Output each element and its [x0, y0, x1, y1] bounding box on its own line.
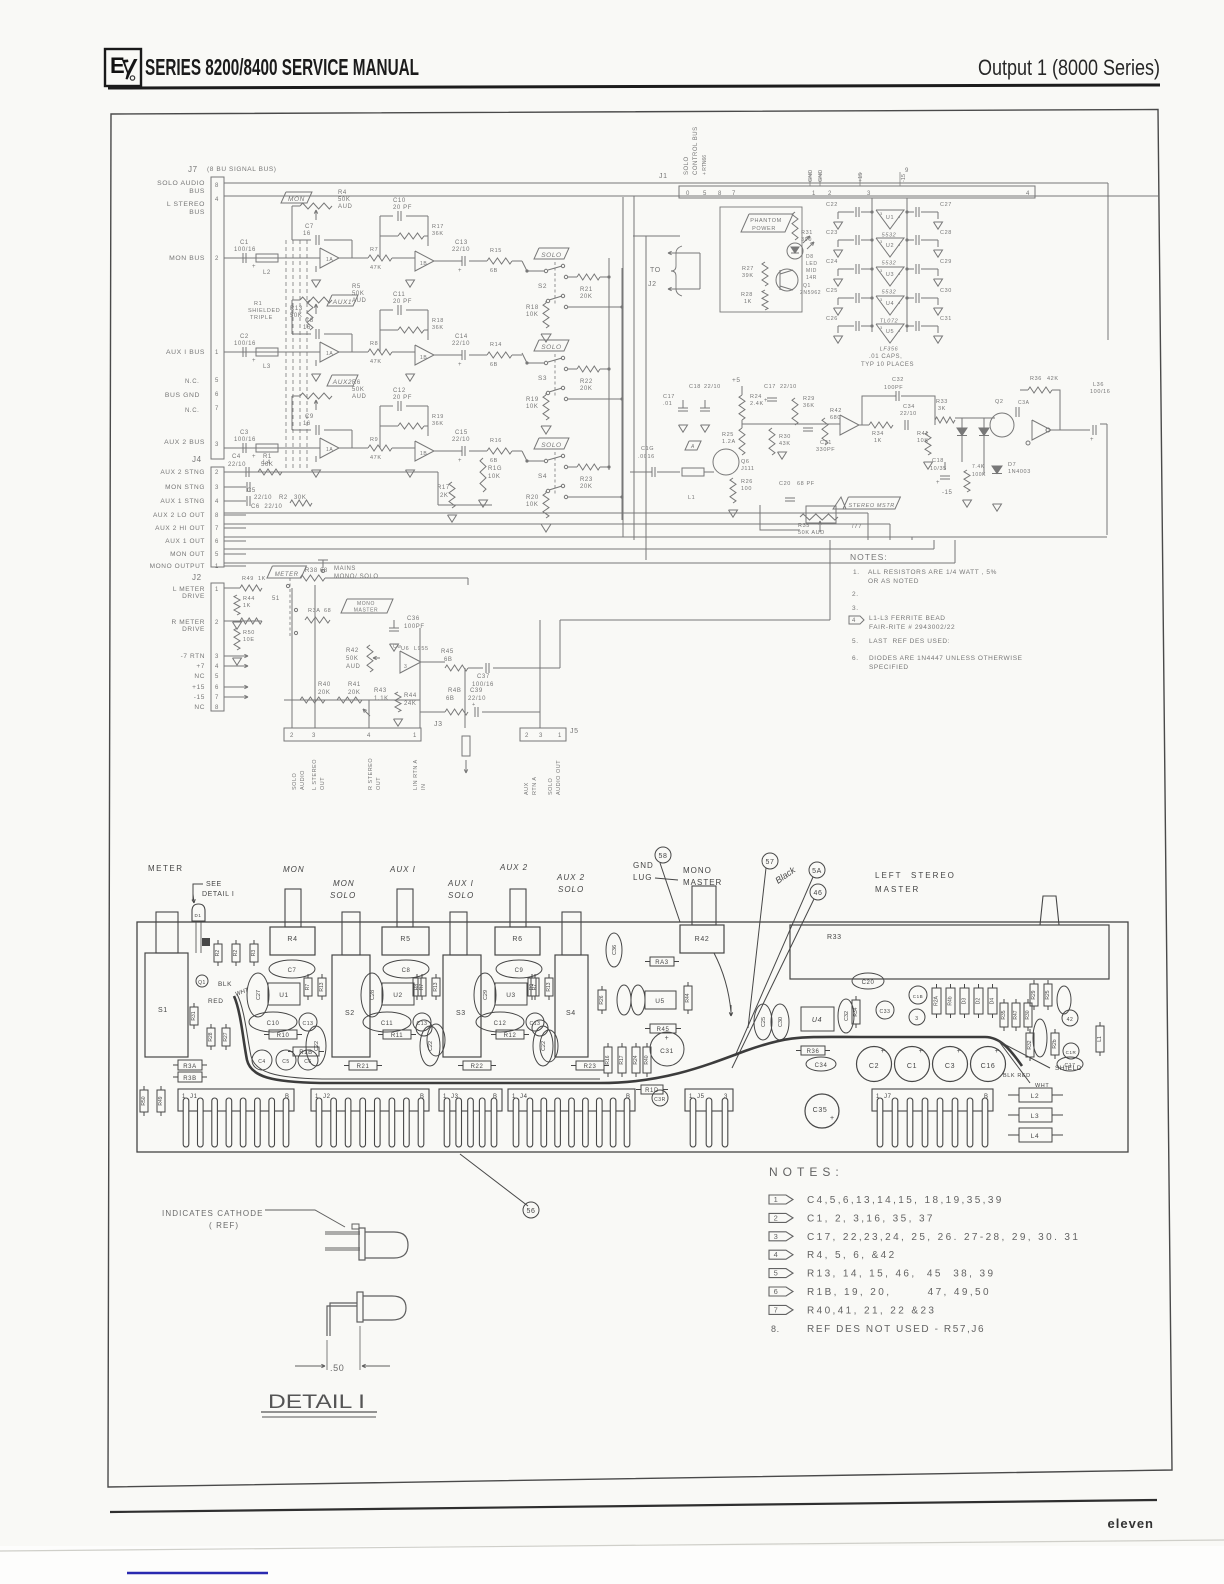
svg-text:+: +: [458, 458, 462, 464]
svg-text:R40: R40: [318, 682, 331, 688]
svg-text:AUD: AUD: [352, 394, 367, 400]
svg-text:MAINS: MAINS: [334, 566, 356, 572]
svg-text:3: 3: [880, 325, 883, 330]
svg-text:C3: C3: [240, 430, 249, 436]
svg-text:C1: C1: [240, 240, 249, 246]
svg-text:1K: 1K: [874, 438, 882, 444]
svg-text:R49: R49: [158, 1096, 164, 1105]
svg-text:J3: J3: [434, 721, 443, 728]
svg-text:D4: D4: [990, 998, 996, 1005]
svg-text:R1B, 19, 20, 47, 49,50: R1B, 19, 20, 47, 49,50: [807, 1287, 991, 1298]
svg-text:4: 4: [898, 271, 901, 276]
svg-text:1.: 1.: [853, 569, 860, 576]
svg-text:A: A: [690, 444, 695, 450]
svg-text:TYP 10 PLACES: TYP 10 PLACES: [861, 362, 914, 368]
svg-text:4: 4: [898, 328, 901, 333]
svg-text:36K: 36K: [432, 421, 444, 427]
svg-text:S3: S3: [456, 1010, 466, 1017]
svg-text:R50: R50: [243, 630, 255, 636]
svg-text:C2: C2: [240, 334, 249, 340]
svg-text:10K: 10K: [526, 502, 538, 508]
svg-text:+: +: [458, 362, 462, 368]
svg-text:R33: R33: [827, 934, 842, 941]
svg-text:U5: U5: [886, 329, 894, 335]
svg-text:.01 CAPS,: .01 CAPS,: [869, 354, 902, 360]
svg-text:INDICATES CATHODE: INDICATES CATHODE: [162, 1209, 264, 1218]
svg-text:R27: R27: [223, 1032, 229, 1041]
svg-text:0: 0: [686, 191, 690, 197]
svg-text:R2: R2: [233, 950, 239, 957]
svg-text:C12: C12: [393, 388, 406, 394]
svg-text:J5: J5: [570, 728, 579, 735]
svg-text:6B: 6B: [490, 458, 498, 464]
svg-text:R44: R44: [243, 596, 255, 602]
svg-text:MONO OUTPUT: MONO OUTPUT: [150, 563, 205, 570]
svg-text:6: 6: [774, 1287, 779, 1296]
svg-text:AUX 2: AUX 2: [499, 863, 528, 872]
svg-text:GND: GND: [818, 170, 824, 182]
svg-text:4: 4: [367, 733, 371, 739]
svg-text:R29: R29: [803, 396, 815, 402]
svg-text:+: +: [919, 1048, 924, 1055]
svg-text:R19: R19: [432, 414, 444, 420]
svg-text:6B: 6B: [490, 362, 498, 368]
svg-text:C11: C11: [381, 1021, 393, 1027]
svg-text:C35: C35: [813, 1107, 828, 1114]
svg-text:GND: GND: [808, 170, 814, 182]
svg-text:C36: C36: [407, 616, 420, 622]
svg-text:C20: C20: [862, 980, 875, 986]
svg-text:C6 22/10: C6 22/10: [251, 504, 282, 510]
svg-text:R20: R20: [526, 495, 539, 501]
svg-text:R13: R13: [433, 982, 439, 991]
svg-text:8: 8: [718, 191, 722, 197]
svg-text:+: +: [881, 1048, 886, 1055]
svg-text:(8 BU SIGNAL BUS): (8 BU SIGNAL BUS): [207, 166, 277, 173]
svg-text:22/10: 22/10: [452, 341, 470, 347]
svg-text:C1, 2, 3,16, 35, 37: C1, 2, 3,16, 35, 37: [807, 1213, 935, 1224]
svg-text:OR AS NOTED: OR AS NOTED: [868, 578, 919, 585]
svg-text:DETAIL I: DETAIL I: [202, 891, 234, 898]
svg-text:22/10: 22/10: [704, 384, 721, 390]
svg-text:MONO: MONO: [357, 601, 375, 607]
svg-text:C21: C21: [820, 440, 832, 446]
svg-text:R5: R5: [352, 284, 361, 290]
svg-text:R METER: R METER: [172, 619, 205, 626]
svg-text:100/16: 100/16: [234, 437, 256, 443]
svg-text:8: 8: [215, 513, 219, 519]
svg-text:3: 3: [215, 654, 219, 660]
svg-text:C1R: C1R: [1066, 1050, 1077, 1055]
svg-text:R13: R13: [546, 982, 552, 991]
svg-text:C22: C22: [541, 1041, 547, 1051]
svg-text:2: 2: [828, 191, 832, 197]
svg-text:1.2A: 1.2A: [722, 439, 736, 445]
svg-text:MON BUS: MON BUS: [169, 255, 205, 262]
svg-text:GND: GND: [633, 861, 654, 870]
svg-text:R25: R25: [1045, 990, 1051, 999]
svg-text:R26: R26: [741, 479, 753, 485]
svg-text:10K: 10K: [488, 474, 500, 480]
svg-text:R40: R40: [644, 1055, 650, 1064]
svg-text:C29: C29: [940, 259, 952, 265]
svg-text:50K: 50K: [352, 291, 364, 297]
svg-text:R4, 5, 6, &42: R4, 5, 6, &42: [807, 1250, 897, 1261]
svg-text:NOTES:: NOTES:: [850, 552, 888, 562]
svg-text:+ RTN66: + RTN66: [702, 155, 708, 175]
svg-text:+: +: [458, 268, 462, 274]
svg-text:1A: 1A: [326, 351, 333, 357]
svg-text:5532: 5532: [882, 290, 897, 296]
svg-text:.01: .01: [663, 401, 672, 407]
svg-text:C27: C27: [940, 202, 952, 208]
svg-text:C25: C25: [826, 288, 838, 294]
svg-text:NC: NC: [194, 673, 205, 680]
svg-text:C3R: C3R: [654, 1097, 666, 1103]
svg-text:SOLO: SOLO: [541, 442, 561, 449]
svg-text:+: +: [252, 264, 256, 270]
svg-text:R24: R24: [633, 1055, 639, 1064]
svg-text:AUX2: AUX2: [332, 379, 352, 386]
svg-text:36K: 36K: [432, 325, 444, 331]
svg-text:U4: U4: [886, 301, 894, 307]
svg-text:3: 3: [915, 1016, 918, 1022]
svg-text:R30: R30: [1025, 1010, 1031, 1019]
svg-text:L1: L1: [688, 495, 695, 501]
svg-text:S1: S1: [158, 1007, 168, 1014]
svg-text:+: +: [995, 1048, 1000, 1055]
svg-text:1: 1: [413, 733, 417, 739]
svg-text:C31: C31: [940, 316, 952, 322]
svg-text:-15: -15: [901, 174, 907, 182]
svg-text:42: 42: [1067, 1017, 1074, 1023]
svg-text:68: 68: [324, 608, 331, 614]
svg-text:6B: 6B: [446, 696, 455, 702]
svg-text:R47: R47: [1013, 1010, 1019, 1019]
svg-text:Q1: Q1: [198, 980, 206, 986]
svg-text:7: 7: [215, 695, 219, 701]
svg-text:1K: 1K: [744, 299, 752, 305]
svg-text:5: 5: [215, 552, 219, 558]
svg-text:SHIELDED: SHIELDED: [248, 308, 280, 314]
svg-text:R30: R30: [779, 434, 791, 440]
svg-text:R13: R13: [290, 306, 303, 312]
svg-text:J7: J7: [188, 165, 198, 174]
svg-text:S4: S4: [538, 473, 547, 480]
svg-text:J1: J1: [659, 173, 668, 180]
svg-text:J2: J2: [323, 1094, 331, 1100]
svg-text:+: +: [764, 398, 768, 404]
svg-text:5.: 5.: [852, 638, 859, 645]
svg-text:3: 3: [215, 442, 219, 448]
svg-text:LEFT STEREO: LEFT STEREO: [875, 871, 956, 880]
svg-text:C18: C18: [932, 458, 944, 464]
svg-text:C9: C9: [515, 968, 524, 974]
svg-text:AUD: AUD: [352, 298, 367, 304]
svg-text:-7 RTN: -7 RTN: [181, 653, 205, 660]
svg-text:3: 3: [880, 297, 883, 302]
svg-text:8.: 8.: [771, 1324, 780, 1334]
svg-text:14R: 14R: [806, 275, 817, 281]
svg-text:10E: 10E: [243, 637, 255, 643]
svg-text:2: 2: [525, 733, 529, 739]
svg-text:R41: R41: [917, 431, 929, 437]
svg-text:R22: R22: [471, 1064, 484, 1070]
svg-text:7: 7: [215, 526, 219, 532]
svg-text:+: +: [252, 454, 256, 460]
svg-text:S4: S4: [566, 1010, 576, 1017]
svg-text:DETAIL I: DETAIL I: [268, 1392, 365, 1413]
svg-text:C3: C3: [945, 1063, 955, 1070]
svg-text:C36: C36: [612, 945, 618, 955]
svg-text:36K: 36K: [432, 231, 444, 237]
svg-text:22/10: 22/10: [468, 696, 486, 702]
svg-text:5: 5: [215, 674, 219, 680]
svg-text:4: 4: [215, 499, 219, 505]
svg-text:C32: C32: [844, 1011, 850, 1021]
svg-text:R STEREO: R STEREO: [368, 758, 374, 790]
svg-text:BUS GND: BUS GND: [165, 392, 200, 399]
svg-text:C20: C20: [779, 481, 791, 487]
svg-text:D2: D2: [976, 998, 982, 1005]
svg-text:1.1K: 1.1K: [374, 696, 389, 702]
svg-text:R31: R31: [801, 230, 813, 236]
svg-text:R7: R7: [370, 247, 378, 253]
svg-text:BUS: BUS: [189, 188, 205, 195]
svg-text:R14: R14: [490, 342, 502, 348]
svg-text:C7: C7: [305, 224, 314, 230]
svg-text:2: 2: [774, 1213, 779, 1222]
svg-text:100/16: 100/16: [234, 247, 256, 253]
svg-text:MASTER: MASTER: [354, 608, 378, 614]
svg-text:R3: R3: [251, 950, 257, 957]
svg-text:100K: 100K: [972, 472, 986, 478]
svg-text:R23: R23: [580, 477, 593, 483]
svg-text:MONO: MONO: [683, 866, 712, 875]
svg-text:L3: L3: [263, 364, 271, 370]
svg-text:R50: R50: [141, 1096, 147, 1105]
svg-text:+: +: [1090, 437, 1094, 443]
svg-text:LIN RTN A: LIN RTN A: [413, 759, 419, 790]
svg-text:10K: 10K: [526, 404, 538, 410]
svg-text:58: 58: [659, 853, 668, 860]
svg-text:3K: 3K: [938, 406, 946, 412]
svg-text:4: 4: [774, 1250, 779, 1259]
svg-text:R9: R9: [370, 437, 378, 443]
svg-text:C11: C11: [393, 292, 405, 298]
svg-text:R5: R5: [400, 936, 410, 943]
svg-text:C23: C23: [826, 230, 838, 236]
svg-text:R36: R36: [1030, 376, 1042, 382]
svg-text:47K: 47K: [370, 359, 382, 365]
svg-text:S2: S2: [538, 283, 547, 290]
svg-text:Output 1 (8000 Series): Output 1 (8000 Series): [978, 55, 1160, 80]
svg-text:16: 16: [303, 325, 311, 331]
svg-text:R2: R2: [279, 495, 288, 501]
svg-text:6: 6: [215, 539, 219, 545]
svg-text:R21: R21: [357, 1064, 370, 1070]
svg-text:R3A: R3A: [183, 1064, 196, 1070]
svg-text:R1: R1: [263, 454, 272, 460]
svg-text:3: 3: [774, 1232, 779, 1241]
svg-text:C14: C14: [455, 334, 468, 340]
svg-text:1A: 1A: [326, 257, 333, 263]
svg-text:3: 3: [312, 733, 316, 739]
svg-text:L1-L3 FERRITE BEAD: L1-L3 FERRITE BEAD: [869, 615, 946, 622]
svg-text:50K AUD: 50K AUD: [798, 530, 825, 536]
svg-text:C28: C28: [940, 230, 952, 236]
svg-text:U1: U1: [886, 215, 894, 221]
svg-text:METER: METER: [275, 572, 299, 578]
svg-text:R35: R35: [1001, 1010, 1007, 1019]
svg-text:R13, 14, 15, 46, 45 38, 39: R13, 14, 15, 46, 45 38, 39: [807, 1269, 995, 1280]
svg-text:NOTES:: NOTES:: [769, 1165, 844, 1179]
svg-text:R42: R42: [695, 936, 710, 943]
svg-text:AUX I: AUX I: [447, 879, 474, 888]
svg-text:R43: R43: [374, 688, 387, 694]
svg-text:39K: 39K: [742, 273, 754, 279]
svg-text:6.: 6.: [852, 655, 859, 662]
svg-text:+15: +15: [858, 173, 864, 182]
svg-text:5: 5: [774, 1269, 779, 1278]
svg-text:/77: /77: [852, 524, 862, 530]
svg-text:R24: R24: [750, 394, 762, 400]
svg-text:E: E: [110, 53, 125, 78]
svg-text:+: +: [665, 1035, 670, 1042]
svg-text:MON: MON: [288, 196, 305, 203]
svg-text:C28: C28: [370, 990, 376, 1000]
svg-text:R3A: R3A: [308, 608, 321, 614]
svg-text:R17: R17: [619, 1055, 625, 1064]
svg-text:L3: L3: [1031, 1113, 1039, 1120]
svg-text:R10: R10: [277, 1033, 290, 1039]
svg-text:SPECIFIED: SPECIFIED: [869, 664, 909, 671]
svg-text:LF356: LF356: [880, 347, 899, 353]
svg-text:AUX 1 STNG: AUX 1 STNG: [160, 498, 205, 505]
svg-text:7.4K: 7.4K: [972, 464, 985, 470]
svg-text:U1: U1: [279, 992, 289, 999]
svg-text:C31: C31: [660, 1048, 674, 1055]
svg-text:10/35: 10/35: [930, 466, 947, 472]
svg-text:RED: RED: [208, 998, 224, 1005]
svg-text:R44: R44: [404, 693, 417, 699]
svg-text:Q2: Q2: [995, 399, 1004, 405]
svg-text:J1: J1: [190, 1094, 198, 1100]
svg-text:+: +: [936, 480, 940, 486]
svg-text:C27: C27: [256, 990, 262, 1000]
svg-text:C2: C2: [869, 1063, 879, 1070]
svg-text:+: +: [830, 1115, 835, 1122]
svg-text:CONTROL BUS: CONTROL BUS: [693, 126, 699, 175]
svg-text:4: 4: [898, 214, 901, 219]
svg-text:C5: C5: [282, 1059, 290, 1065]
svg-text:+: +: [957, 1048, 962, 1055]
svg-text:R17: R17: [432, 224, 444, 230]
svg-text:WHT: WHT: [1035, 1083, 1049, 1089]
svg-text:AUDIO: AUDIO: [300, 770, 306, 790]
svg-text:SOLO: SOLO: [330, 891, 356, 900]
svg-text:IN: IN: [421, 784, 427, 791]
svg-text:47K: 47K: [370, 265, 382, 271]
svg-text:RA3: RA3: [655, 960, 669, 966]
svg-text:AUX 2 LO OUT: AUX 2 LO OUT: [153, 512, 205, 519]
svg-text:100/16: 100/16: [234, 341, 256, 347]
svg-text:20K: 20K: [580, 484, 592, 490]
svg-text:NC: NC: [194, 704, 205, 711]
svg-text:50K: 50K: [290, 313, 302, 319]
svg-text:-15: -15: [942, 490, 953, 496]
svg-text:1K: 1K: [243, 603, 251, 609]
svg-text:C30: C30: [778, 1017, 784, 1027]
svg-text:R12: R12: [504, 1033, 517, 1039]
svg-text:R18: R18: [432, 318, 444, 324]
svg-text:6: 6: [215, 392, 219, 398]
svg-text:C16: C16: [981, 1063, 996, 1070]
svg-text:N.C.: N.C.: [185, 408, 199, 414]
svg-text:L4: L4: [1031, 1133, 1039, 1140]
svg-text:100: 100: [741, 486, 752, 492]
svg-text:U2: U2: [886, 243, 894, 249]
svg-text:20K: 20K: [318, 690, 330, 696]
svg-text:5A: 5A: [812, 868, 822, 875]
svg-text:9: 9: [905, 168, 909, 174]
svg-text:100/16: 100/16: [1090, 389, 1110, 395]
svg-text:U5: U5: [655, 998, 665, 1005]
svg-text:SOLO: SOLO: [541, 252, 561, 259]
svg-text:3: 3: [539, 733, 543, 739]
svg-text:C1G: C1G: [641, 446, 654, 452]
svg-text:50K: 50K: [338, 197, 350, 203]
svg-text:R28: R28: [208, 1032, 214, 1041]
svg-text:4: 4: [215, 664, 219, 670]
svg-text:R42: R42: [346, 648, 359, 654]
svg-text:1: 1: [558, 733, 562, 739]
svg-text:2.: 2.: [852, 591, 859, 598]
svg-text:WHT: WHT: [235, 987, 251, 998]
svg-text:R3B: R3B: [183, 1076, 196, 1082]
svg-text:R9: R9: [529, 984, 535, 991]
svg-text:42K: 42K: [1047, 376, 1059, 382]
svg-text:R34: R34: [872, 431, 884, 437]
svg-text:AUX 2: AUX 2: [556, 873, 585, 882]
svg-text:R1: R1: [254, 301, 262, 307]
svg-text:S3: S3: [538, 375, 547, 382]
svg-text:( REF): ( REF): [209, 1221, 239, 1230]
svg-text:R23: R23: [584, 1064, 597, 1070]
svg-text:AUX 2 BUS: AUX 2 BUS: [164, 439, 205, 446]
svg-text:U2: U2: [393, 992, 403, 999]
svg-text:C26: C26: [826, 316, 838, 322]
svg-text:+5: +5: [732, 377, 741, 384]
svg-text:U3: U3: [506, 992, 516, 999]
svg-text:R32: R32: [1027, 1040, 1033, 1049]
svg-text:3.: 3.: [852, 605, 859, 612]
svg-text:R15: R15: [490, 248, 502, 254]
svg-text:1K: 1K: [258, 576, 266, 582]
svg-text:C10: C10: [393, 198, 406, 204]
svg-text:L STEREO: L STEREO: [312, 759, 318, 790]
svg-text:C17: C17: [764, 384, 776, 390]
svg-text:C3A: C3A: [1018, 400, 1030, 406]
svg-text:1N4003: 1N4003: [1008, 469, 1031, 475]
svg-text:.50: .50: [330, 1363, 344, 1373]
svg-text:SOLO: SOLO: [541, 344, 561, 351]
svg-text:C29: C29: [483, 990, 489, 1000]
svg-text:SOLO: SOLO: [548, 777, 554, 795]
svg-text:22/10: 22/10: [780, 384, 797, 390]
svg-text:REF DES NOT USED - R57,J6: REF DES NOT USED - R57,J6: [807, 1324, 985, 1335]
svg-text:1: 1: [215, 564, 219, 570]
